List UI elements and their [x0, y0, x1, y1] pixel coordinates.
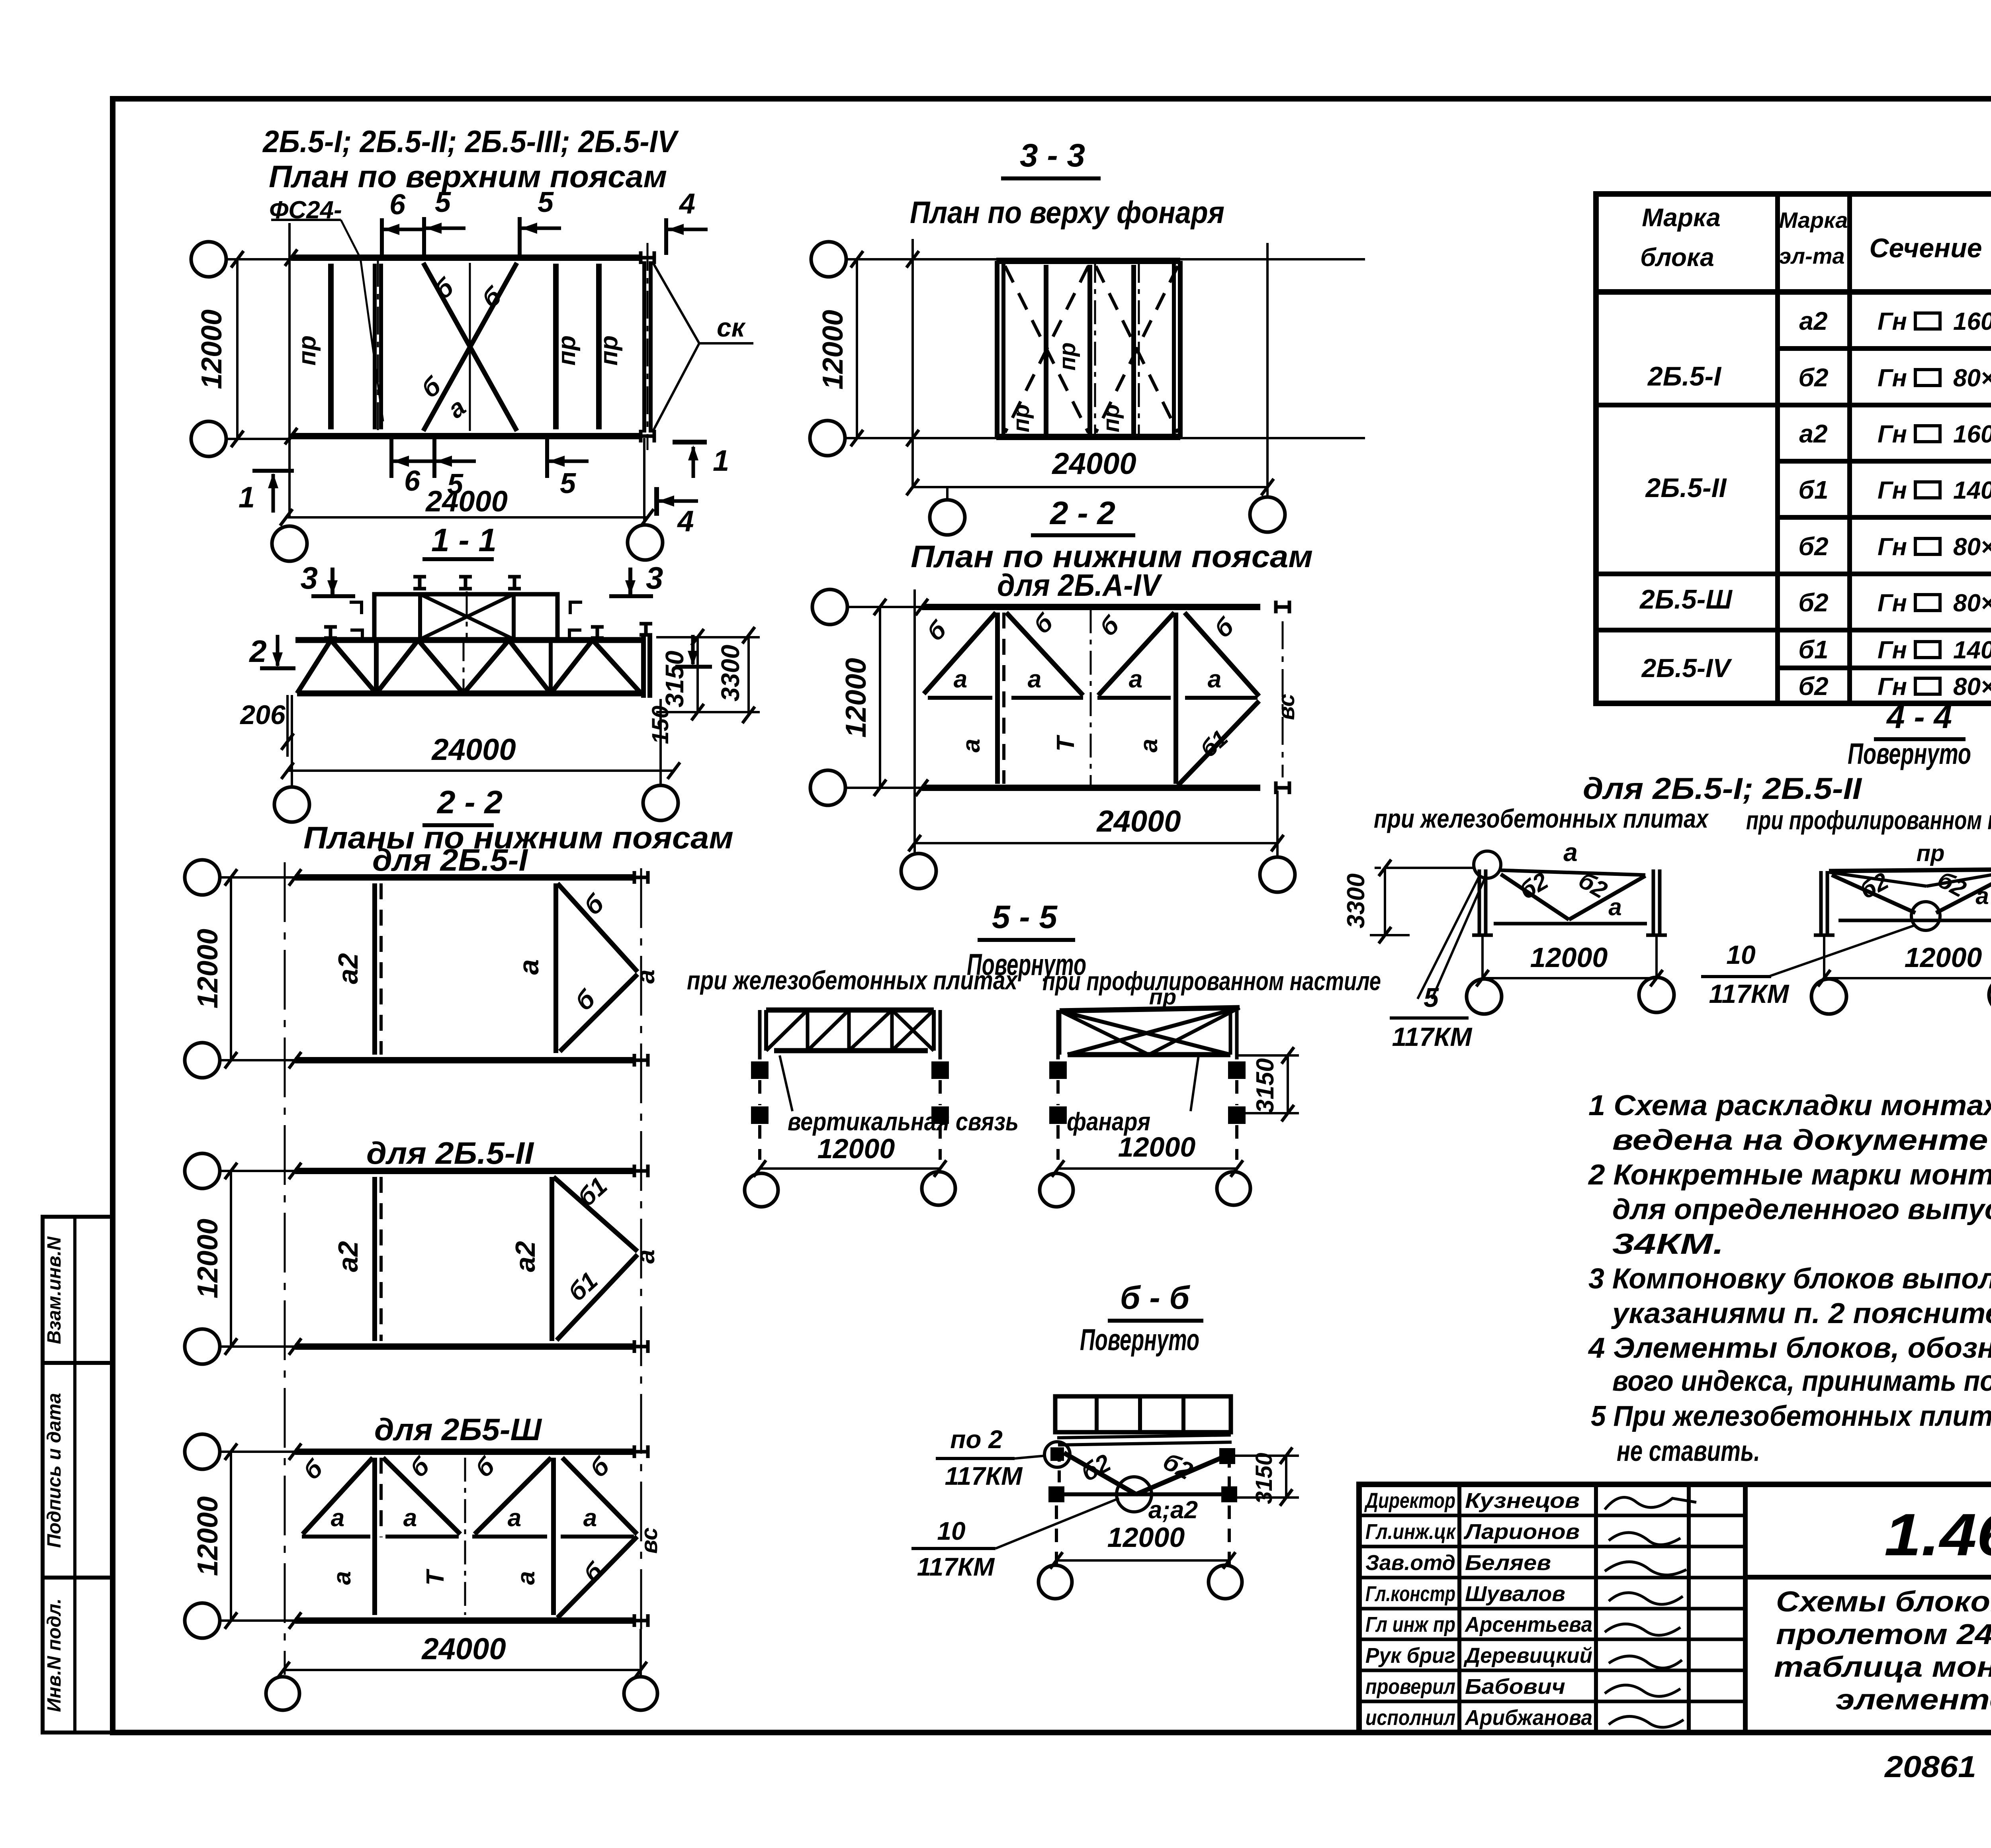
svg-text:указаниями п. 2 пояснительно: указаниями п. 2 пояснительной записки: [1611, 1298, 1991, 1329]
svg-text:160×4: 160×4: [1953, 308, 1991, 335]
svg-text:5: 5: [1424, 983, 1439, 1013]
svg-text:Арсентьева: Арсентьева: [1464, 1613, 1592, 1637]
svg-text:Арибжанова: Арибжанова: [1464, 1706, 1592, 1730]
svg-text:Гн: Гн: [1878, 533, 1907, 561]
svg-text:Гн: Гн: [1878, 589, 1907, 617]
svg-text:ведена на документе 33КМ.: ведена на документе 33КМ.: [1612, 1124, 1991, 1156]
svg-text:для 2Б5-Ш: для 2Б5-Ш: [374, 1412, 542, 1447]
svg-text:а2: а2: [332, 953, 364, 984]
svg-text:24000: 24000: [1096, 805, 1181, 838]
svg-text:для 2Б.5-II: для 2Б.5-II: [366, 1135, 534, 1171]
svg-text:6: 6: [404, 465, 420, 497]
svg-text:3150: 3150: [1251, 1453, 1277, 1504]
svg-text:вертикальная связь: вертикальная связь: [788, 1107, 1019, 1136]
svg-text:Гн: Гн: [1878, 364, 1907, 392]
svg-text:пр: пр: [1149, 984, 1176, 1009]
svg-text:а: а: [403, 1504, 417, 1532]
svg-text:при профилированном настиле: при профилированном настиле: [1746, 805, 1991, 835]
svg-text:а: а: [1028, 666, 1041, 693]
svg-text:б1: б1: [1798, 476, 1828, 504]
svg-text:вс: вс: [1273, 694, 1299, 720]
svg-text:5: 5: [538, 186, 554, 218]
svg-text:2: 2: [248, 634, 266, 669]
svg-text:а2: а2: [1799, 307, 1827, 335]
svg-text:б2: б2: [1798, 672, 1828, 701]
svg-text:24000: 24000: [1051, 447, 1136, 481]
svg-text:для 2Б.5-I: для 2Б.5-I: [372, 842, 528, 877]
svg-text:5 - 5: 5 - 5: [992, 899, 1058, 935]
svg-text:для 2Б.А-IV: для 2Б.А-IV: [997, 568, 1163, 603]
svg-text:исполнил: исполнил: [1365, 1706, 1455, 1730]
svg-text:3150: 3150: [1252, 1058, 1279, 1113]
svg-text:24000: 24000: [421, 1632, 506, 1666]
svg-text:12000: 12000: [1905, 942, 1982, 973]
svg-text:3300: 3300: [1342, 873, 1370, 928]
svg-text:а: а: [583, 1504, 597, 1532]
svg-text:по 2: по 2: [950, 1425, 1003, 1454]
svg-text:Подпись и дата: Подпись и дата: [44, 1393, 65, 1548]
svg-text:Ларионов: Ларионов: [1463, 1520, 1580, 1544]
svg-text:Гн: Гн: [1878, 421, 1907, 448]
svg-text:при профилированном настиле: при профилированном настиле: [1042, 966, 1381, 996]
svg-text:117КМ: 117КМ: [1709, 979, 1790, 1008]
svg-text:3300: 3300: [716, 645, 745, 701]
svg-text:Т: Т: [422, 1568, 449, 1586]
svg-text:а: а: [329, 1571, 356, 1585]
svg-text:4: 4: [679, 188, 695, 220]
svg-text:6: 6: [389, 189, 406, 221]
svg-text:Повернуто: Повернуто: [1080, 1323, 1199, 1357]
svg-text:12000: 12000: [818, 1133, 895, 1164]
svg-text:План по верху фонаря: План по верху фонаря: [910, 195, 1224, 230]
svg-text:пр: пр: [1917, 840, 1945, 866]
svg-text:2Б.5-I: 2Б.5-I: [1647, 361, 1722, 392]
svg-text:а: а: [958, 739, 985, 752]
svg-text:б1: б1: [1798, 635, 1828, 664]
svg-text:4: 4: [677, 505, 694, 538]
svg-text:5: 5: [560, 468, 576, 499]
svg-text:12000: 12000: [817, 310, 849, 390]
svg-text:при железобетонных плитах: при железобетонных плитах: [1374, 804, 1709, 833]
svg-text:Гн: Гн: [1878, 477, 1907, 504]
svg-text:3 - 3: 3 - 3: [1020, 137, 1085, 174]
svg-text:Сечение: Сечение: [1869, 233, 1982, 263]
svg-text:а: а: [331, 1504, 344, 1532]
svg-text:а: а: [1135, 739, 1163, 752]
svg-text:117КМ: 117КМ: [917, 1552, 995, 1581]
svg-text:ск: ск: [717, 313, 746, 342]
svg-text:а: а: [1208, 666, 1221, 693]
svg-text:80×3: 80×3: [1953, 533, 1991, 561]
svg-text:Беляев: Беляев: [1465, 1551, 1551, 1575]
svg-text:а: а: [954, 666, 967, 693]
svg-text:б2: б2: [1798, 588, 1828, 617]
svg-text:4 Элементы блоков, обозначен: 4 Элементы блоков, обозначенные буквами …: [1588, 1332, 1991, 1364]
svg-text:пр: пр: [595, 335, 623, 366]
svg-text:1: 1: [239, 481, 255, 514]
svg-text:пр: пр: [1008, 404, 1034, 433]
svg-text:12000: 12000: [196, 309, 228, 389]
svg-text:3150: 3150: [660, 651, 689, 707]
svg-text:а: а: [631, 1249, 660, 1264]
svg-text:Деревицкий: Деревицкий: [1463, 1644, 1592, 1668]
svg-text:Гн: Гн: [1878, 308, 1907, 335]
svg-text:206: 206: [239, 700, 286, 730]
svg-text:Взам.инв.N: Взам.инв.N: [44, 1236, 65, 1344]
svg-text:Гн: Гн: [1878, 636, 1907, 664]
svg-text:140×4: 140×4: [1953, 477, 1991, 504]
svg-text:б2: б2: [1798, 363, 1828, 392]
svg-text:элементов: элементов: [1836, 1684, 1991, 1716]
svg-text:а2: а2: [510, 1241, 541, 1272]
svg-text:2 Конкретные марки монтажных: 2 Конкретные марки монтажных блоков, при…: [1588, 1159, 1991, 1191]
svg-text:План по верхним поясам: План по верхним поясам: [269, 159, 667, 194]
svg-text:1 Схема раскладки монтажных: 1 Схема раскладки монтажных блоков покры…: [1588, 1090, 1991, 1122]
svg-text:а: а: [513, 959, 544, 975]
svg-text:Повернуто: Повернуто: [1848, 737, 1971, 770]
svg-text:2Б.5-I; 2Б.5-II; 2Б.5-III; 2Б.: 2Б.5-I; 2Б.5-II; 2Б.5-III; 2Б.5-IV: [262, 124, 679, 159]
svg-text:Инв.N подл.: Инв.N подл.: [44, 1598, 65, 1712]
svg-text:Схемы блоков 2Б.5: Схемы блоков 2Б.5: [1776, 1586, 1991, 1618]
svg-text:140×4: 140×4: [1953, 636, 1991, 664]
svg-text:12000: 12000: [192, 1219, 224, 1298]
svg-text:Шувалов: Шувалов: [1465, 1582, 1565, 1606]
svg-text:проверил: проверил: [1365, 1675, 1455, 1699]
svg-text:б2: б2: [1798, 532, 1828, 561]
svg-text:Гл.инж.цк: Гл.инж.цк: [1365, 1520, 1456, 1544]
svg-text:а: а: [631, 969, 660, 984]
svg-text:1: 1: [713, 444, 729, 477]
svg-text:34КМ.: 34КМ.: [1612, 1228, 1724, 1260]
svg-text:1.460.3-19-51КМ: 1.460.3-19-51КМ: [1884, 1501, 1991, 1568]
svg-text:Кузнецов: Кузнецов: [1465, 1489, 1580, 1513]
svg-text:вс: вс: [636, 1527, 662, 1554]
svg-text:5 При железобетонных плитах: 5 При железобетонных плитах в покрытии п…: [1591, 1400, 1991, 1432]
svg-text:12000: 12000: [1107, 1522, 1185, 1553]
svg-text:80×3: 80×3: [1953, 589, 1991, 617]
svg-text:Гн: Гн: [1878, 673, 1907, 701]
svg-text:Бабович: Бабович: [1465, 1675, 1565, 1699]
svg-text:а;а2: а;а2: [1148, 1496, 1198, 1524]
svg-text:12000: 12000: [192, 1496, 224, 1576]
svg-text:а: а: [1608, 894, 1621, 920]
svg-text:5: 5: [435, 186, 451, 218]
svg-text:не ставить.: не ставить.: [1617, 1435, 1760, 1467]
svg-text:блока: блока: [1640, 243, 1714, 272]
svg-text:10: 10: [937, 1517, 965, 1545]
svg-text:таблица монтажных: таблица монтажных: [1774, 1651, 1991, 1683]
svg-text:12000: 12000: [840, 658, 872, 738]
svg-text:24000: 24000: [431, 733, 516, 767]
svg-text:3: 3: [301, 560, 318, 595]
svg-text:а: а: [1563, 838, 1578, 867]
svg-text:пр: пр: [293, 335, 321, 366]
svg-text:пролетом 24м и: пролетом 24м и: [1776, 1619, 1991, 1650]
svg-text:пр: пр: [1098, 404, 1124, 433]
svg-text:Марка: Марка: [1642, 203, 1721, 232]
svg-text:117КМ: 117КМ: [1392, 1022, 1473, 1051]
svg-text:2Б.5-II: 2Б.5-II: [1645, 473, 1727, 503]
svg-text:Гл инж пр: Гл инж пр: [1365, 1613, 1455, 1637]
svg-text:для определенного выпуска, п: для определенного выпуска, приведены на …: [1612, 1194, 1991, 1225]
svg-text:пр: пр: [553, 335, 581, 366]
svg-text:а2: а2: [1799, 419, 1827, 448]
svg-text:для 2Б.5-I; 2Б.5-II: для 2Б.5-I; 2Б.5-II: [1583, 772, 1862, 806]
svg-text:эл-та: эл-та: [1779, 243, 1844, 268]
svg-text:3: 3: [646, 560, 663, 595]
svg-text:80×3: 80×3: [1953, 673, 1991, 701]
svg-text:10: 10: [1726, 940, 1756, 969]
svg-text:при железобетонных плитах: при железобетонных плитах: [687, 965, 1018, 995]
svg-text:80×3: 80×3: [1953, 364, 1991, 392]
svg-text:а: а: [1129, 666, 1142, 693]
svg-text:Рук бриг: Рук бриг: [1365, 1644, 1455, 1668]
svg-text:2Б.5-Ш: 2Б.5-Ш: [1639, 584, 1733, 615]
svg-text:Директор: Директор: [1364, 1489, 1455, 1513]
svg-text:12000: 12000: [1118, 1132, 1196, 1163]
svg-text:3 Компоновку блоков выполнят: 3 Компоновку блоков выполнять в соответс…: [1588, 1263, 1991, 1295]
svg-text:а: а: [512, 1571, 540, 1585]
svg-text:а2: а2: [332, 1241, 364, 1272]
svg-text:пр: пр: [1054, 343, 1080, 371]
svg-text:б - б: б - б: [1120, 1280, 1191, 1316]
svg-text:24000: 24000: [425, 485, 508, 518]
svg-text:вого индекса, принимать по: вого индекса, принимать по конкретному о…: [1612, 1365, 1991, 1397]
svg-text:1 - 1: 1 - 1: [431, 522, 497, 558]
svg-text:Марка: Марка: [1779, 208, 1848, 233]
svg-text:2 - 2: 2 - 2: [436, 784, 503, 820]
svg-text:160×4: 160×4: [1953, 421, 1991, 448]
svg-text:а: а: [1975, 883, 1989, 909]
svg-text:Т: Т: [1052, 734, 1080, 752]
svg-text:12000: 12000: [1530, 942, 1608, 973]
svg-text:20861: 20861: [1884, 1750, 1976, 1784]
svg-text:12000: 12000: [192, 929, 224, 1008]
svg-text:а: а: [508, 1504, 521, 1532]
svg-text:Зав.отд: Зав.отд: [1365, 1551, 1455, 1575]
svg-text:Гл.констр: Гл.констр: [1365, 1582, 1455, 1606]
svg-text:2 - 2: 2 - 2: [1049, 495, 1115, 531]
svg-text:2Б.5-IV: 2Б.5-IV: [1641, 653, 1733, 683]
svg-text:117КМ: 117КМ: [945, 1462, 1023, 1490]
